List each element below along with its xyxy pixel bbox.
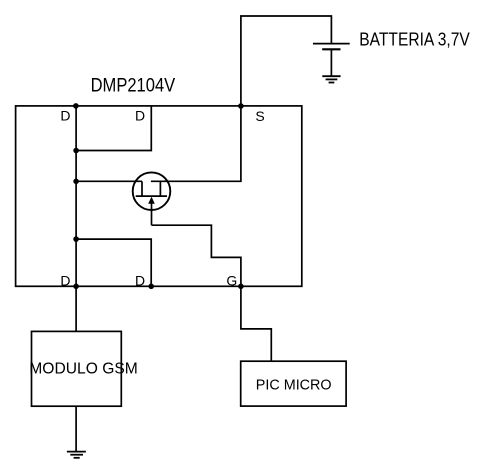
wire drain bus vertical (left) [75,106,77,286]
wire MODULO GSM to ground [75,406,77,451]
svg-text:D: D [135,272,145,288]
PIC MICRO box [241,361,346,406]
svg-text:DMP2104V: DMP2104V [91,75,176,97]
svg-text:PIC MICRO: PIC MICRO [256,376,332,393]
wire drain lead to transistor [76,180,142,182]
svg-text:S: S [255,108,264,124]
battery BT1 [313,44,350,50]
wire G pin down to PIC MICRO [241,286,271,361]
svg-text:MODULO GSM: MODULO GSM [29,361,138,378]
wire battery top horizontal [241,16,332,106]
wire lower drain branch [76,239,151,286]
node S pin junction [238,103,244,109]
wire inner box to second D pin [76,106,151,151]
node drain lead junction [73,179,79,185]
node bottom D2 junction [148,284,154,290]
wire source lead from S pin down to transistor [151,106,241,181]
node inner box junction [73,148,79,154]
svg-text:D: D [60,272,70,288]
node G pin junction [238,284,244,290]
svg-text:D: D [135,108,145,124]
wire transistor source to gate pin G [152,225,241,286]
svg-text:G: G [226,272,237,288]
MODULO GSM box [32,331,122,406]
wire bottom D pin to MODULO GSM [75,286,77,331]
svg-text:D: D [60,108,70,124]
node bottom D1 junction [73,284,79,290]
transistor Q1 P-MOSFET [133,172,171,225]
wire battery to ground [330,49,332,76]
node top D1 junction [73,103,79,109]
junction node dots [73,103,244,289]
node lower branch junction [73,236,79,242]
svg-text:BATTERIA 3,7V: BATTERIA 3,7V [359,28,470,49]
MOSFET package outline U1 DMP2104V [16,106,302,286]
ground (battery) [322,76,340,82]
ground (MODULO GSM) [67,452,86,458]
